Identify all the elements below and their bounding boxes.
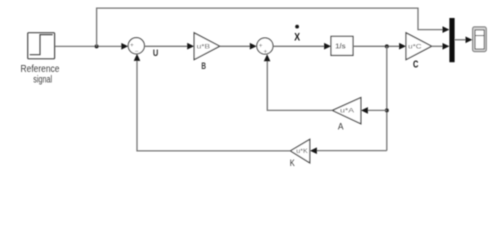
svg-text:B: B [201, 61, 206, 71]
svg-text:K: K [290, 158, 295, 168]
sum S2 [257, 38, 273, 56]
wire gain K to sum S1 bottom [134, 54, 291, 151]
wire S1 to gain B [144, 43, 194, 50]
integrator 1/s [331, 36, 353, 55]
node feedback junction [385, 44, 389, 48]
wire S2 to integrator [273, 43, 331, 50]
svg-text:X: X [294, 31, 300, 43]
svg-text:A: A [338, 121, 344, 131]
svg-text:C: C [413, 59, 418, 70]
gain C [406, 33, 432, 71]
svg-text:−: − [135, 48, 139, 55]
svg-text:signal: signal [33, 75, 52, 86]
wire junction to gain A [361, 107, 387, 114]
svg-text:u*A: u*A [340, 108, 355, 115]
node label U [153, 48, 158, 58]
gain K [290, 139, 310, 168]
wire feedback vertical drop [386, 46, 388, 150]
svg-text:Reference: Reference [21, 64, 60, 75]
svg-text:u*K: u*K [296, 149, 308, 155]
node label Xdot [294, 25, 300, 44]
sum S1 [128, 38, 144, 56]
wire bottom to gain K [310, 147, 387, 154]
svg-text:1/s: 1/s [335, 43, 346, 50]
wire integrator to gain C [353, 43, 406, 50]
node A-branch junction [385, 108, 389, 112]
svg-text:U: U [153, 48, 158, 58]
svg-text:+: + [264, 49, 268, 56]
svg-text:+: + [259, 42, 263, 49]
gain B [194, 33, 220, 71]
scope [473, 27, 487, 52]
svg-text:+: + [130, 42, 134, 49]
svg-text:u*B: u*B [197, 44, 210, 51]
node branch junction [95, 44, 99, 48]
svg-text:u*C: u*C [408, 44, 422, 51]
wire source to sum S1 [55, 43, 128, 50]
wire mux to scope [455, 37, 473, 44]
wire gain C to mux [432, 43, 450, 50]
gain A [332, 98, 361, 132]
wire feedforward top (junction up, across, down to mux) [97, 8, 450, 46]
mux [449, 18, 454, 62]
wire gain A to sum S2 bottom [264, 54, 333, 110]
wire gain B to sum S2 [220, 43, 257, 50]
source Reference signal block [21, 33, 60, 86]
